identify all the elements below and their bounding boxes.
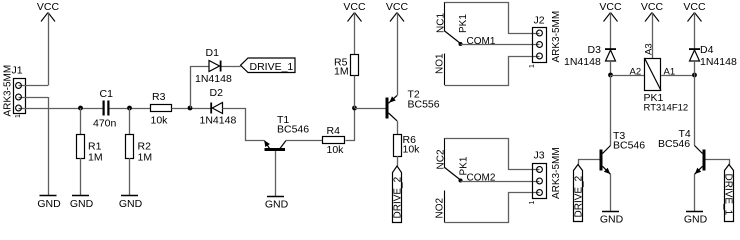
diode D2 triangle: [212, 103, 222, 114]
wire J1 pin 3 lead: [19, 85, 49, 87]
wire NC1 rail to J2 pin 1: [445, 3, 540, 34]
svg-text:1M: 1M: [88, 152, 103, 164]
wire D2 to T1: [223, 109, 265, 141]
connector J1 pin 3 circle: [16, 83, 22, 89]
relay contact 2 COM2 pin label: [467, 173, 496, 184]
relay contact 2 NC2 stub: [444, 138, 446, 167]
net flag DRIVE_1 (T4): [722, 165, 733, 222]
node junction R2 top: [127, 106, 132, 111]
svg-text:DRIVE_1: DRIVE_1: [722, 174, 733, 216]
wire D1 anode lead: [190, 66, 209, 68]
wire VCC to R5: [354, 13, 356, 55]
power symbol VCC (J1 supply): [37, 1, 60, 22]
node junction R4/R5/T2 base: [352, 106, 357, 111]
connector J3 pin 3 circle: [537, 190, 543, 196]
connector J1 pin 2 circle: [16, 94, 22, 100]
svg-text:J3: J3: [534, 150, 545, 162]
diode D2 label: [210, 87, 224, 99]
svg-text:C1: C1: [100, 88, 114, 100]
svg-text:D1: D1: [206, 47, 220, 59]
connector J2 pin 1 circle: [537, 30, 543, 36]
svg-text:1N4148: 1N4148: [195, 73, 232, 85]
diode D3 cathode bar: [605, 48, 616, 50]
svg-text:10k: 10k: [327, 144, 345, 156]
relay contact 2 NO2 pin label: [435, 198, 446, 219]
connector J2 label: [534, 15, 545, 27]
transistor T3 collector: [603, 146, 611, 154]
wire R2 top lead: [129, 108, 131, 135]
svg-text:1: 1: [15, 114, 22, 118]
relay contact 1 COM1 pin label: [467, 36, 496, 47]
net flag DRIVE_2 (T3): [574, 165, 585, 222]
transistor T4 collector: [695, 146, 703, 154]
power symbol VCC (coil A3): [641, 1, 664, 22]
transistor T1 emitter with arrow: [264, 140, 270, 148]
svg-text:1: 1: [529, 64, 536, 68]
svg-text:GND: GND: [600, 214, 624, 226]
relay contact 1 name PK1: [458, 14, 469, 33]
power symbol VCC (R5): [343, 1, 366, 22]
transistor T3 emitter with arrow: [603, 166, 611, 174]
diode D3 label: [588, 44, 602, 56]
wire D1 to DRIVE_1 flag: [222, 66, 241, 68]
svg-text:470n: 470n: [93, 118, 117, 130]
connector J2 pin 1 number: [529, 64, 536, 68]
svg-text:GND: GND: [70, 198, 94, 210]
svg-text:1N4148: 1N4148: [700, 56, 737, 68]
resistor R2 body: [126, 135, 134, 159]
wire J1 pin 2 lead: [19, 97, 49, 99]
connector J3 body: [533, 164, 547, 199]
resistor R4 value: [327, 144, 345, 156]
connector J1 value ARK3-5MM: [3, 65, 14, 117]
svg-text:PK1: PK1: [458, 14, 469, 33]
svg-text:D2: D2: [210, 87, 224, 99]
svg-text:J2: J2: [534, 15, 545, 27]
svg-text:ARK3-5MM: ARK3-5MM: [551, 11, 562, 63]
transistor T2 base bar: [386, 98, 389, 119]
svg-text:GND: GND: [684, 214, 708, 226]
svg-text:DRIVE_2: DRIVE_2: [393, 176, 404, 218]
wire J1 pin 2 to GND: [48, 97, 50, 195]
wire node to T4 collector: [694, 75, 696, 146]
svg-text:NC1: NC1: [436, 13, 447, 33]
wire C1 to R3: [110, 108, 151, 110]
ground GND (T3): [600, 212, 624, 226]
svg-text:D4: D4: [700, 44, 714, 56]
resistor R5 label: [334, 57, 349, 78]
relay contact 1 NO1 pin label: [435, 53, 446, 74]
transistor T4 emitter with arrow: [695, 166, 703, 174]
transistor T2 emitter with arrow: [389, 96, 398, 104]
connector J1 pin 1 number: [15, 114, 22, 118]
connector J3 value ARK3-5MM: [551, 147, 562, 199]
wire T1 collector to R4: [286, 140, 323, 142]
wire T2 collector to R6: [397, 121, 399, 135]
wire junction to T2 base: [355, 108, 386, 110]
wire R1 bottom lead: [80, 158, 82, 195]
svg-text:VCC: VCC: [641, 1, 664, 13]
net flag DRIVE_2 (R6): [393, 166, 404, 223]
svg-text:ARK3-5MM: ARK3-5MM: [551, 147, 562, 199]
wire R1 top lead: [80, 108, 82, 135]
svg-text:10k: 10k: [403, 144, 421, 156]
transistor T1 labels: [277, 114, 309, 136]
wire T4 emitter to GND: [694, 174, 696, 211]
wire VCC to coil pin A3: [652, 13, 654, 59]
transistor T1 base bar: [265, 148, 286, 151]
svg-text:D3: D3: [588, 44, 602, 56]
svg-text:ARK3-5MM: ARK3-5MM: [3, 65, 14, 117]
svg-text:1N4148: 1N4148: [200, 115, 237, 127]
svg-text:DRIVE_2: DRIVE_2: [574, 175, 585, 217]
resistor R5 body: [351, 55, 359, 76]
capacitor C1 label: [100, 88, 114, 100]
relay coil pin label A1: [664, 67, 676, 78]
relay contact 2 arm: [444, 167, 461, 180]
diode D2 value: [200, 115, 237, 127]
connector J1 pin 1 circle: [16, 105, 22, 111]
resistor R6 body: [394, 135, 402, 157]
svg-text:GND: GND: [119, 198, 143, 210]
svg-text:GND: GND: [265, 199, 289, 211]
diode D1 cathode bar: [220, 61, 222, 72]
resistor R1 body: [77, 135, 85, 159]
wire T3 base to DRIVE_2 flag: [579, 160, 600, 165]
resistor R3 body: [151, 105, 172, 112]
wire R2 bottom lead: [129, 158, 131, 195]
svg-text:R4: R4: [327, 125, 341, 137]
relay contact 2 NC2 pin label: [436, 149, 447, 169]
diode D1 value: [195, 73, 232, 85]
wire T1 base to GND: [275, 151, 277, 196]
svg-text:RT314F12: RT314F12: [644, 103, 689, 114]
relay contact 1 NC1 stub: [444, 2, 446, 31]
wire NC2 rail to J3 pin 1: [445, 139, 540, 170]
connector J1 body: [14, 79, 26, 114]
node COM1 pivot: [459, 42, 463, 46]
resistor R3 value: [151, 115, 169, 127]
relay contact 2 name PK1: [459, 156, 470, 175]
connector J2 body: [533, 28, 547, 63]
resistor R1 label: [88, 141, 103, 164]
wire R4 to T2 base junction: [346, 109, 355, 141]
svg-text:COM1: COM1: [467, 36, 496, 47]
relay coil pin label A2: [630, 67, 642, 78]
relay contact 1 NC1 pin label: [436, 13, 447, 33]
svg-text:DRIVE_1: DRIVE_1: [250, 61, 294, 73]
net flag DRIVE_1: [241, 58, 296, 73]
node junction A2/D3/T3: [608, 73, 613, 78]
resistor R4 label: [327, 125, 341, 137]
wire R5 to junction: [354, 76, 356, 109]
wire VCC to T2 emitter: [397, 13, 399, 96]
node junction R1 top: [78, 106, 83, 111]
svg-text:BC546: BC546: [658, 138, 690, 150]
transistor T1 collector: [280, 141, 286, 149]
wire VCC to D4 cathode: [694, 13, 696, 50]
wire branch up to D1: [190, 66, 192, 108]
ground GND (J1): [37, 196, 61, 211]
diode D4 value: [700, 56, 737, 68]
wire NO2 rail to J3 pin 3: [445, 193, 540, 223]
wire D4 anode to node: [694, 61, 696, 75]
diode D4 cathode bar: [689, 48, 700, 50]
transistor T3 labels: [613, 130, 645, 152]
svg-text:VCC: VCC: [343, 1, 366, 13]
wire VCC to D3 cathode: [610, 13, 612, 50]
node junction D1 branch: [188, 106, 193, 111]
svg-text:VCC: VCC: [599, 1, 622, 13]
wire COM2 to J3 pin 2: [461, 181, 540, 183]
svg-text:NO2: NO2: [435, 198, 446, 219]
ground GND (R1): [70, 196, 94, 211]
connector J1 label: [12, 65, 23, 77]
svg-text:NC2: NC2: [436, 149, 447, 169]
resistor R2 label: [138, 141, 153, 164]
relay contact 1 NO1 stub: [444, 54, 446, 86]
wire R3 to D2: [172, 108, 211, 110]
svg-text:BC546: BC546: [277, 124, 309, 136]
connector J2 pin 2 circle: [537, 42, 543, 48]
resistor R6 label: [403, 134, 421, 156]
ground GND (T4): [684, 212, 708, 226]
svg-text:VCC: VCC: [386, 1, 409, 13]
wire T4 base to DRIVE_1 flag: [706, 160, 730, 165]
relay coil PK1 label: [644, 92, 664, 104]
capacitor C1 plates: [103, 101, 110, 116]
wire VCC riser to J1 pin 3: [48, 13, 50, 86]
wire NO1 rail to J2 pin 3: [445, 57, 540, 86]
svg-text:VCC: VCC: [683, 1, 706, 13]
connector J3 pin 1 number: [529, 201, 536, 205]
svg-text:1: 1: [529, 201, 536, 205]
transistor T4 labels: [658, 128, 691, 150]
resistor R4 body: [323, 137, 345, 144]
relay coil PK1 value RT314F12: [644, 103, 689, 114]
transistor T2 labels: [408, 89, 440, 111]
svg-text:1M: 1M: [334, 66, 349, 78]
node junction A1/D4/T4: [692, 73, 697, 78]
connector J3 label: [534, 150, 545, 162]
power symbol VCC (D3): [599, 1, 622, 22]
diode D3 value: [564, 56, 601, 68]
diode D4 label: [700, 44, 714, 56]
wire node to coil pin A2: [611, 75, 645, 77]
ground GND (T1): [265, 197, 289, 211]
transistor T2 collector: [389, 113, 398, 121]
capacitor C1 value: [93, 118, 117, 130]
wire COM1 to J2 pin 2: [461, 44, 540, 46]
connector J3 pin 2 circle: [537, 178, 543, 184]
ground GND (R2): [119, 196, 143, 211]
resistor R3 label: [152, 91, 166, 103]
relay coil pin label A3: [644, 43, 655, 55]
wire D3 anode to node: [610, 61, 612, 75]
diode D4 triangle: [690, 50, 700, 61]
svg-text:R3: R3: [152, 91, 166, 103]
wire T3 emitter to GND: [610, 174, 612, 211]
svg-text:NO1: NO1: [435, 53, 446, 74]
diode D1 label: [206, 47, 220, 59]
connector J3 pin 1 circle: [537, 167, 543, 173]
power symbol VCC (T2): [386, 1, 409, 22]
svg-text:1M: 1M: [138, 152, 153, 164]
svg-text:GND: GND: [37, 198, 61, 210]
wire node to T3 collector: [610, 75, 612, 146]
transistor T4 base bar: [703, 150, 706, 171]
relay contact 1 arm: [444, 31, 461, 44]
transistor T3 base bar: [600, 150, 603, 171]
wire coil pin A1 to node: [661, 75, 695, 77]
wire J1 pin 1 lead (input net): [19, 108, 103, 110]
connector J2 pin 3 circle: [537, 53, 543, 59]
svg-text:BC556: BC556: [408, 99, 440, 111]
svg-text:A3: A3: [644, 43, 655, 55]
power symbol VCC (D4): [683, 1, 706, 22]
connector J2 value ARK3-5MM: [551, 11, 562, 63]
svg-text:1N4148: 1N4148: [564, 56, 601, 68]
diode D2 cathode bar: [210, 103, 212, 114]
svg-text:A2: A2: [630, 67, 642, 78]
svg-text:BC546: BC546: [613, 140, 645, 152]
node COM2 pivot: [459, 179, 463, 183]
wire R6 to DRIVE_2 flag: [397, 156, 399, 166]
diode D1 triangle: [209, 61, 220, 72]
svg-text:10k: 10k: [151, 115, 169, 127]
svg-text:VCC: VCC: [37, 1, 60, 13]
diode D3 triangle: [606, 50, 616, 61]
relay coil PK1 body: [645, 58, 662, 91]
relay contact 2 NO2 stub: [444, 191, 446, 223]
